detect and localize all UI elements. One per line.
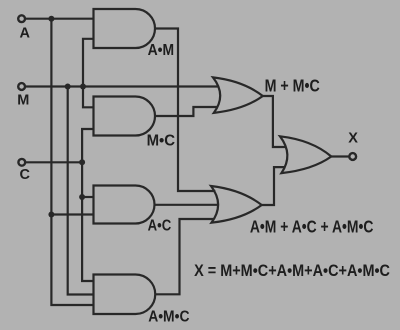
svg-text:C: C xyxy=(20,167,31,183)
svg-text:A•M•C: A•M•C xyxy=(148,309,190,326)
svg-text:M + M•C: M + M•C xyxy=(265,75,320,95)
svg-text:A: A xyxy=(20,25,31,41)
svg-text:X = M+M•C+A•M+A•C+A•M•C: X = M+M•C+A•M+A•C+A•M•C xyxy=(194,262,390,280)
svg-text:X: X xyxy=(348,131,358,147)
svg-text:A•C: A•C xyxy=(148,218,172,235)
svg-text:M•C: M•C xyxy=(147,133,176,150)
svg-text:A•M + A•C + A•M•C: A•M + A•C + A•M•C xyxy=(250,217,374,237)
svg-text:A•M: A•M xyxy=(148,42,175,59)
svg-text:M: M xyxy=(17,93,29,109)
